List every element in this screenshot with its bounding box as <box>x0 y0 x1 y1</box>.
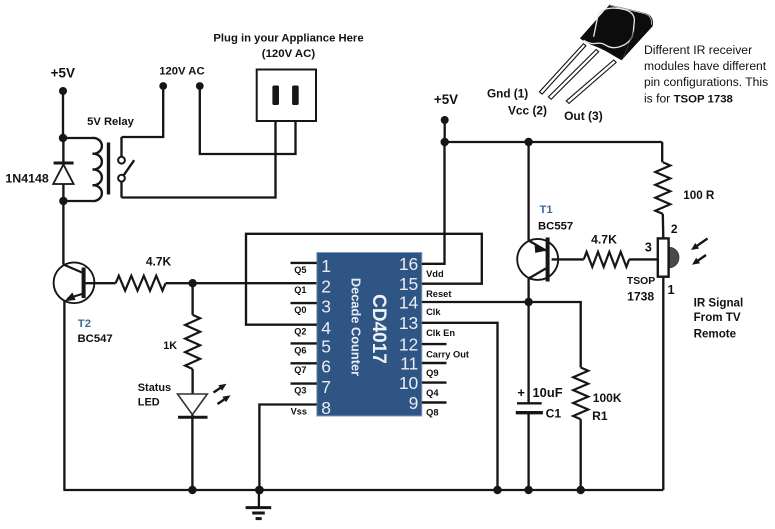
pin 14 (Clk) of CD4017 <box>399 292 442 317</box>
junction: LED to rail <box>188 486 196 494</box>
wire: +5V down to 100R <box>661 142 663 162</box>
svg-text:13: 13 <box>399 313 418 333</box>
junction: Vss/ground symbol <box>255 486 264 495</box>
svg-text:100K: 100K <box>593 391 622 405</box>
svg-text:+5V: +5V <box>51 66 75 81</box>
svg-text:5V Relay: 5V Relay <box>87 116 134 128</box>
svg-text:Different IR receiver: Different IR receiver <box>644 43 752 57</box>
svg-text:4.7K: 4.7K <box>591 233 617 247</box>
resistor 100 R <box>655 162 715 214</box>
svg-text:Q3: Q3 <box>294 386 306 396</box>
wire: junction down to C1 <box>527 302 529 403</box>
svg-text:1K: 1K <box>163 340 177 352</box>
svg-text:14: 14 <box>399 292 419 312</box>
svg-text:Q6: Q6 <box>294 345 306 355</box>
relay switch contacts <box>118 137 134 198</box>
wire: diode junction down to T2 collector <box>62 201 64 265</box>
svg-text:is for TSOP 1738: is for TSOP 1738 <box>644 91 733 105</box>
label Vcc (2) <box>508 104 547 118</box>
junction: +5V / Vdd branch <box>441 138 449 146</box>
junction: Q1 line / 1K branch <box>188 279 196 287</box>
resistor 1K <box>163 315 200 369</box>
wire: Clk line over to R1 <box>529 302 581 368</box>
svg-text:16: 16 <box>399 254 418 274</box>
node 120V AC right terminal <box>159 66 204 90</box>
wire: TSOP pin 1 down to ground rail <box>662 277 664 490</box>
junction: R1 to rail <box>577 486 585 494</box>
node 120V AC left terminal <box>159 82 167 90</box>
wire: +5V to T1 emitter <box>527 142 529 241</box>
pin 8 (Vss) of CD4017 <box>291 398 331 418</box>
svg-text:Q1: Q1 <box>294 285 306 295</box>
svg-text:Remote: Remote <box>694 328 737 341</box>
pin 7 (Q3) of CD4017 <box>291 377 332 397</box>
svg-text:T2: T2 <box>78 318 91 330</box>
svg-text:Clk En: Clk En <box>426 328 455 338</box>
wire: pin 13 Clk En to ground rail <box>422 323 498 490</box>
junction: diode/relay coil top <box>59 134 67 142</box>
svg-text:1: 1 <box>667 283 674 297</box>
wire: pin 8 Vss to ground <box>259 405 316 491</box>
wire: relay switch to appliance plug left prong <box>122 104 276 198</box>
diode 1N4148 (flyback) <box>5 138 73 201</box>
IR receiver TSOP 1738 <box>627 222 679 303</box>
pin 6 (Q7) of CD4017 <box>291 357 332 377</box>
appliance outlet box (Plug in your Appliance Here) <box>213 33 363 122</box>
svg-text:6: 6 <box>321 357 331 377</box>
svg-text:120V AC: 120V AC <box>159 66 204 78</box>
pin 9 (Q8) of CD4017 <box>409 393 447 418</box>
pin 5 (Q6) of CD4017 <box>291 337 332 357</box>
svg-text:Vdd: Vdd <box>426 269 444 279</box>
wire: 4.7K to junction and on to CD4017 pin 2 Q1 <box>166 282 317 284</box>
svg-text:2: 2 <box>321 277 331 297</box>
label Gnd (1) <box>487 87 528 101</box>
svg-text:2: 2 <box>671 222 678 236</box>
wire: R1 to ground rail <box>580 419 582 490</box>
pin 2 (Q1) of CD4017 <box>294 277 331 297</box>
svg-text:BC557: BC557 <box>538 221 573 233</box>
svg-text:Plug in your Appliance Here: Plug in your Appliance Here <box>213 33 363 45</box>
wire: T1 base to 4.7K <box>552 258 584 260</box>
svg-text:T1: T1 <box>540 204 553 216</box>
svg-text:IR Signal: IR Signal <box>694 296 744 309</box>
svg-text:10uF: 10uF <box>533 385 563 400</box>
svg-text:From TV: From TV <box>694 311 741 324</box>
wire: 100R to TSOP pin 2 <box>662 214 665 239</box>
svg-text:4.7K: 4.7K <box>146 255 172 269</box>
wire: 1K to Status LED <box>191 369 193 394</box>
relay core bar <box>107 143 110 195</box>
pin 16 (Vdd) of CD4017 <box>399 254 444 279</box>
pin 13 (Clk En) of CD4017 <box>399 313 456 338</box>
svg-text:Clk: Clk <box>426 307 441 317</box>
wire: pin 14 Clk to T1 collector junction <box>422 301 529 303</box>
wire: relay coil bottom connection <box>63 200 92 202</box>
svg-text:R1: R1 <box>592 409 608 423</box>
wire: pin 15 Reset feedback loop to pin 4 Q2 <box>246 234 482 325</box>
svg-text:C1: C1 <box>546 407 562 421</box>
junction: +5V / T1 emitter branch <box>524 138 532 146</box>
svg-text:Q4: Q4 <box>426 388 439 398</box>
svg-text:TSOP: TSOP <box>627 276 655 287</box>
wire: 120V AC right terminal to appliance plug right prong <box>200 88 296 154</box>
svg-text:Decade Counter: Decade Counter <box>349 278 364 376</box>
pin 10 (Q4) of CD4017 <box>399 373 447 398</box>
svg-text:Q0: Q0 <box>294 305 306 315</box>
svg-text:Q7: Q7 <box>294 365 306 375</box>
svg-text:10: 10 <box>399 373 419 393</box>
pin 11 (Q9) of CD4017 <box>400 353 446 378</box>
wire: 4.7K to TSOP pin 3 <box>629 258 658 260</box>
svg-text:1738: 1738 <box>627 289 654 303</box>
node +5V (right supply terminal) <box>434 92 458 124</box>
svg-text:Reset: Reset <box>426 289 451 299</box>
pin 4 (Q2) of CD4017 <box>294 318 331 338</box>
svg-text:1N4148: 1N4148 <box>5 172 49 186</box>
svg-text:+5V: +5V <box>434 92 458 107</box>
svg-text:3: 3 <box>321 296 331 316</box>
svg-text:5: 5 <box>321 337 331 357</box>
transistor T2 BC547 <box>54 262 113 490</box>
svg-text:+: + <box>517 385 525 400</box>
resistor R 4.7K (T2 base) <box>116 255 172 291</box>
node +5V (left supply terminal) <box>51 66 75 96</box>
svg-text:Vss: Vss <box>291 406 307 416</box>
svg-text:(120V AC): (120V AC) <box>262 48 316 60</box>
IR signal arrows into TSOP <box>691 239 708 265</box>
pin 15 (Reset) of CD4017 <box>399 274 452 299</box>
resistor R1 100K <box>573 368 622 423</box>
svg-text:1: 1 <box>321 256 331 276</box>
note: Different IR receiver modules text <box>644 43 768 105</box>
junction: diode anode / coil bottom <box>59 197 67 205</box>
wire: pin 16 Vdd up to +5V rail <box>422 142 445 264</box>
wire: junction down to 1K resistor <box>191 283 193 315</box>
svg-text:BC547: BC547 <box>78 333 113 345</box>
wire: +5V rail (right) <box>445 120 663 142</box>
svg-text:11: 11 <box>400 353 418 373</box>
relay K1 coil (5V Relay) <box>87 116 134 201</box>
pin 1 (Q5) of CD4017 <box>291 256 332 276</box>
svg-text:4: 4 <box>321 318 331 338</box>
LED emission arrows <box>214 384 231 404</box>
wire: left +5V rail down to relay/diode junction <box>62 91 64 138</box>
svg-text:Out (3): Out (3) <box>564 109 603 123</box>
svg-text:modules have different: modules have different <box>644 59 767 73</box>
IR receiver module photo (TSOP package) <box>539 5 653 104</box>
svg-text:100 R: 100 R <box>683 189 715 202</box>
junction: T1 collector / Clk / C1 / R1 <box>524 298 532 306</box>
svg-text:CD4017: CD4017 <box>368 294 389 364</box>
label: IR Signal From TV Remote <box>694 296 744 340</box>
svg-text:12: 12 <box>399 334 418 354</box>
capacitor C1 10uF <box>516 385 563 490</box>
wire: relay coil top connection <box>63 138 93 139</box>
svg-text:3: 3 <box>645 240 652 254</box>
svg-text:Q9: Q9 <box>426 368 438 378</box>
svg-text:Q5: Q5 <box>294 265 306 275</box>
svg-text:LED: LED <box>138 397 160 409</box>
svg-text:Q8: Q8 <box>426 408 438 418</box>
transistor T1 BC557 <box>517 204 573 302</box>
pin 3 (Q0) of CD4017 <box>291 296 332 316</box>
svg-text:pin configurations. This: pin configurations. This <box>644 75 768 89</box>
pin 12 (Carry Out) of CD4017 <box>399 334 469 359</box>
ground symbol <box>246 490 272 519</box>
junction: Clk En to rail <box>493 486 501 494</box>
svg-text:7: 7 <box>321 377 331 397</box>
svg-text:Q2: Q2 <box>294 327 306 337</box>
resistor 4.7K (T1 base) <box>584 233 629 267</box>
label Out (3) <box>564 109 603 123</box>
svg-text:Status: Status <box>138 382 171 394</box>
Status LED D2 <box>138 382 208 490</box>
svg-text:Carry Out: Carry Out <box>426 349 469 359</box>
svg-text:8: 8 <box>321 398 331 418</box>
svg-text:Vcc (2): Vcc (2) <box>508 104 547 118</box>
junction: C1 to rail <box>524 486 532 494</box>
svg-text:15: 15 <box>399 274 418 294</box>
svg-text:Gnd (1): Gnd (1) <box>487 87 528 101</box>
IC U1 CD4017 decade counter body <box>317 253 422 417</box>
wire: T2 base to resistor 4.7K <box>86 282 116 284</box>
wire: relay switch top contact to 120V AC left terminal <box>122 88 164 137</box>
wire: ground rail <box>63 489 663 491</box>
svg-text:9: 9 <box>409 393 419 413</box>
